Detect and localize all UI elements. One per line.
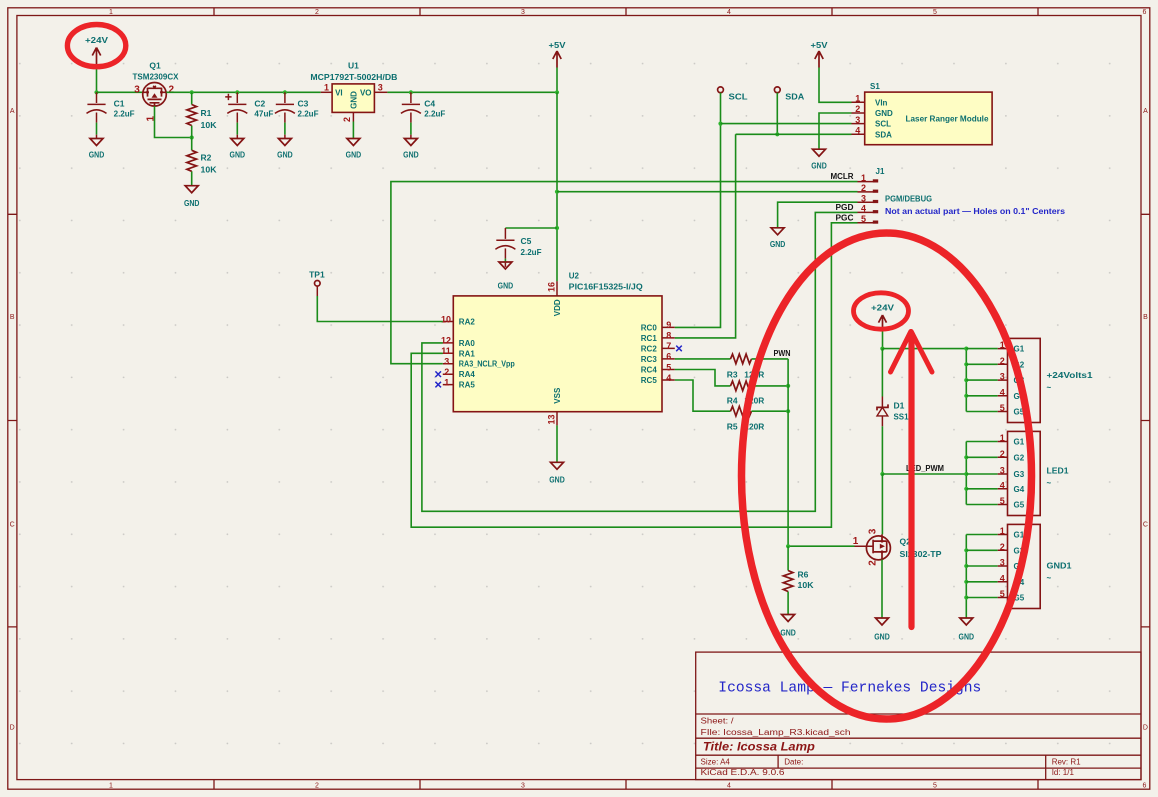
svg-text:U2: U2 — [569, 272, 580, 281]
svg-text:D1: D1 — [894, 401, 905, 411]
node junction rail at R1 — [190, 90, 194, 94]
wire U1 GND pin to ground — [352, 122, 354, 139]
node junction SDA — [775, 132, 779, 136]
svg-text:Date:: Date: — [784, 757, 803, 766]
wire LED_PWM to LED1 bus — [882, 473, 966, 475]
svg-text:2: 2 — [1000, 356, 1005, 366]
connector +24Volts1 — [998, 338, 1093, 422]
node junction rail at C2 — [235, 90, 239, 94]
svg-text:1: 1 — [109, 9, 113, 16]
wire SCL testpoint down — [720, 93, 722, 124]
svg-text:RA2: RA2 — [459, 318, 476, 327]
svg-text:GND: GND — [403, 150, 419, 160]
wire +5V down to rail — [556, 68, 558, 93]
wire Q1 drain to U1 input rail — [166, 91, 320, 93]
ground below R6 — [780, 615, 796, 638]
wire Q2 source to ground — [881, 560, 883, 619]
svg-text:47uF: 47uF — [254, 109, 273, 119]
svg-text:+24Volts1: +24Volts1 — [1047, 371, 1094, 380]
svg-text:6: 6 — [666, 352, 671, 362]
svg-text:GND: GND — [874, 632, 890, 642]
svg-text:R6: R6 — [798, 570, 809, 580]
node junction PWM at Q2 gate — [786, 544, 790, 548]
svg-text:RA5: RA5 — [459, 381, 476, 390]
wire +24V down to D1 — [881, 349, 883, 397]
svg-text:5: 5 — [933, 9, 937, 16]
svg-text:PGC: PGC — [836, 213, 854, 222]
svg-text:2: 2 — [444, 367, 449, 377]
svg-text:5: 5 — [666, 362, 671, 372]
svg-text:3: 3 — [1000, 466, 1005, 476]
svg-text:C4: C4 — [424, 99, 435, 109]
wire +5V to S1 VIn — [819, 68, 852, 103]
svg-text:+5V: +5V — [549, 40, 566, 50]
wire +24V to connector bus — [882, 348, 966, 350]
svg-text:11: 11 — [441, 346, 451, 356]
svg-text:GND: GND — [346, 150, 362, 160]
svg-text:LED1: LED1 — [1047, 467, 1070, 476]
node junction GND1 pin5 — [964, 595, 968, 599]
svg-text:SDA: SDA — [875, 130, 892, 139]
svg-text:3: 3 — [1000, 558, 1005, 568]
node junction GND1 pin3 — [964, 564, 968, 568]
module S1 Laser Ranger Module — [852, 82, 993, 145]
wire SCL to S1 — [721, 123, 852, 125]
svg-text:5: 5 — [861, 214, 866, 224]
svg-text:D: D — [1143, 725, 1148, 732]
border zone numbers top — [109, 9, 1147, 16]
svg-text:Id: 1/1: Id: 1/1 — [1052, 768, 1075, 777]
svg-text:2: 2 — [315, 9, 319, 16]
svg-text:SCL: SCL — [729, 92, 748, 102]
svg-text:G3: G3 — [1014, 470, 1025, 479]
svg-text:9: 9 — [666, 320, 671, 330]
wire U2 VSS to ground — [556, 425, 558, 462]
ground below GND1 bus — [959, 618, 975, 642]
svg-text:GND: GND — [230, 150, 246, 160]
ground below C3 — [277, 139, 293, 160]
svg-text:VI: VI — [335, 88, 343, 97]
capacitor C4 2.2uF — [401, 92, 445, 138]
svg-text:A: A — [10, 108, 15, 115]
svg-text:2.2uF: 2.2uF — [298, 109, 319, 119]
svg-text:3: 3 — [861, 193, 866, 203]
svg-text:5: 5 — [1000, 496, 1005, 506]
svg-text:G2: G2 — [1014, 453, 1025, 462]
svg-text:10K: 10K — [201, 165, 218, 175]
node junction bus pin4 — [964, 394, 968, 398]
svg-text:2: 2 — [169, 85, 175, 96]
svg-text:B: B — [10, 314, 15, 321]
svg-text:Size: A4: Size: A4 — [701, 757, 731, 766]
node junction bus pin2 — [964, 362, 968, 366]
svg-text:GND: GND — [277, 150, 293, 160]
node junction rail at C3 — [283, 90, 287, 94]
svg-text:3: 3 — [1000, 372, 1005, 382]
svg-text:13: 13 — [546, 414, 556, 424]
svg-text:Sheet: /: Sheet: / — [701, 716, 735, 725]
capacitor C5 2.2uF — [495, 228, 541, 267]
ground below U1 — [346, 139, 362, 160]
node junction PWM at R4 — [786, 384, 790, 388]
svg-text:PWN: PWN — [774, 349, 791, 358]
svg-text:J1: J1 — [876, 167, 885, 176]
svg-text:RC0: RC0 — [641, 323, 658, 332]
node junction SCL — [718, 122, 722, 126]
title block frame — [696, 652, 1141, 780]
svg-text:GND: GND — [875, 109, 893, 118]
test point SDA — [774, 87, 804, 102]
svg-text:2.2uF: 2.2uF — [114, 109, 135, 119]
wire U2 RC4 to R4 — [675, 370, 731, 386]
wire LED_PWM down to Q2 drain — [881, 474, 883, 534]
connector J1 PGM/DEBUG — [858, 167, 933, 224]
svg-text:VDD: VDD — [553, 299, 562, 316]
node junction bus pin1 — [964, 347, 968, 351]
diode D1 SS1 (schottky) — [877, 397, 909, 427]
svg-text:RA3_NCLR_Vpp: RA3_NCLR_Vpp — [459, 360, 515, 369]
svg-text:FIle: Icossa_Lamp_R3.kicad_sch: FIle: Icossa_Lamp_R3.kicad_sch — [701, 728, 851, 737]
svg-text:RC3: RC3 — [641, 355, 658, 364]
svg-text:G4: G4 — [1014, 485, 1025, 494]
border zone numbers bottom — [109, 783, 1147, 790]
svg-text:10: 10 — [441, 314, 451, 324]
red annotation big ellipse — [742, 233, 1032, 719]
svg-text:RA1: RA1 — [459, 349, 476, 358]
power symbol +24V (right) — [871, 303, 894, 332]
node junction PWM at R5 — [786, 409, 790, 413]
ground below Q2 — [874, 618, 890, 642]
svg-text:B: B — [1143, 314, 1148, 321]
wire net MCLR: U2 RA3 to J1 pin1 — [391, 182, 858, 364]
svg-text:3: 3 — [444, 357, 449, 367]
connector LED1 — [998, 431, 1069, 515]
svg-text:Title: Icossa Lamp: Title: Icossa Lamp — [703, 742, 815, 754]
wire +24V down to junction — [882, 332, 884, 349]
ground below C4 — [403, 139, 419, 160]
svg-text:4: 4 — [1000, 573, 1005, 583]
svg-text:A: A — [1143, 108, 1148, 115]
svg-text:MCLR: MCLR — [831, 172, 854, 181]
svg-text:R2: R2 — [201, 153, 212, 163]
svg-text:R3: R3 — [727, 369, 738, 379]
svg-text:1: 1 — [444, 377, 449, 387]
svg-text:3: 3 — [521, 9, 525, 16]
wire Q1 gate down and right to R1/R2 node — [155, 106, 192, 138]
power symbol +24V (top-left) — [85, 35, 108, 68]
svg-text:R1: R1 — [201, 108, 212, 118]
wire LED1 bus vertical — [965, 442, 967, 505]
svg-text:GND: GND — [498, 281, 514, 291]
ground below C2 — [230, 139, 246, 160]
node junction GND1 pin4 — [964, 580, 968, 584]
svg-text:2: 2 — [1000, 449, 1005, 459]
no-connect X at U2 RA4 — [435, 371, 441, 377]
svg-text:GND: GND — [184, 198, 200, 208]
wire C5 to +5V vertical — [505, 227, 557, 229]
svg-text:8: 8 — [666, 331, 671, 341]
svg-text:4: 4 — [666, 373, 671, 383]
capacitor C1 — [87, 92, 135, 138]
wire net SCL: U2 RC0 up to SCL node — [675, 124, 721, 328]
ground below C1 — [89, 139, 105, 160]
svg-text:3: 3 — [855, 115, 860, 125]
node junction +5V rail — [555, 90, 559, 94]
svg-text:3: 3 — [868, 528, 879, 534]
svg-text:SI2302-TP: SI2302-TP — [900, 549, 942, 559]
svg-text:6: 6 — [1143, 9, 1147, 16]
svg-text:R5: R5 — [727, 422, 738, 432]
svg-text:RC4: RC4 — [641, 366, 658, 375]
svg-text:Rev: R1: Rev: R1 — [1052, 757, 1081, 766]
svg-text:GND: GND — [549, 475, 565, 485]
svg-text:PGM/DEBUG: PGM/DEBUG — [885, 195, 932, 204]
svg-text:1: 1 — [324, 83, 329, 93]
svg-text:RA4: RA4 — [459, 370, 476, 379]
red annotation small ellipse around +24V right — [854, 293, 909, 329]
capacitor C2 47uF (polarized) — [225, 92, 273, 138]
svg-text:1: 1 — [1000, 433, 1005, 443]
svg-text:3: 3 — [378, 83, 383, 93]
svg-text:+24V: +24V — [85, 35, 108, 45]
red annotation circle around +24V top-left — [67, 24, 125, 66]
ground below U2 VSS — [549, 462, 565, 484]
svg-text:KiCad E.D.A. 9.0.6: KiCad E.D.A. 9.0.6 — [701, 768, 786, 777]
node junction +5V at C5 — [555, 226, 559, 230]
svg-text:+24V: +24V — [871, 303, 894, 313]
capacitor C3 2.2uF — [275, 92, 319, 138]
svg-text:R4: R4 — [727, 395, 738, 405]
wire U2 RC5 to R5 — [675, 380, 731, 411]
svg-text:GND1: GND1 — [1047, 562, 1073, 571]
svg-text:U1: U1 — [348, 61, 359, 71]
wire R5 to PWM node — [752, 410, 789, 412]
svg-text:3: 3 — [521, 783, 525, 790]
node junction +5V at J1 pin2 wire — [555, 190, 559, 194]
wire SDA testpoint down — [776, 93, 778, 135]
regulator U1 MCP1792T-5002H/DB — [310, 61, 397, 123]
test point TP1 — [309, 270, 325, 287]
resistor R3 120R — [727, 354, 765, 379]
svg-text:4: 4 — [1000, 480, 1005, 490]
wire +5V vertical feed to U2 VDD — [556, 92, 558, 281]
node junction bus pin3 — [964, 378, 968, 382]
wire SDA to S1 — [736, 133, 852, 135]
svg-text:C: C — [1143, 522, 1148, 529]
svg-text:2: 2 — [1000, 542, 1005, 552]
svg-text:6: 6 — [1143, 783, 1147, 790]
svg-text:MCP1792T-5002H/DB: MCP1792T-5002H/DB — [310, 72, 397, 82]
svg-text:Q1: Q1 — [149, 61, 161, 71]
svg-text:10K: 10K — [201, 120, 218, 130]
svg-text:2: 2 — [342, 117, 352, 122]
svg-text:16: 16 — [546, 282, 556, 292]
svg-text:GND: GND — [770, 239, 786, 249]
svg-text:10K: 10K — [798, 580, 815, 590]
svg-text:SS1: SS1 — [894, 412, 909, 422]
resistor R2 10K — [187, 138, 217, 186]
svg-text:GND: GND — [350, 91, 359, 109]
svg-text:GND: GND — [89, 150, 105, 160]
svg-text:SDA: SDA — [785, 92, 804, 102]
node junction LED1 pin2 — [964, 455, 968, 459]
svg-text:PGD: PGD — [836, 203, 854, 212]
svg-text:5: 5 — [933, 783, 937, 790]
svg-text:3: 3 — [134, 85, 140, 96]
svg-text:2: 2 — [855, 104, 860, 114]
node junction +24V feed — [880, 347, 884, 351]
svg-text:4: 4 — [727, 9, 731, 16]
svg-text:RC2: RC2 — [641, 344, 658, 353]
transistor Q2 SI2302-TP — [853, 528, 942, 566]
svg-text:C2: C2 — [254, 99, 265, 109]
wire J1 pin3 to ground — [778, 202, 858, 228]
wire +5V to J1 pin 2 — [557, 191, 858, 193]
wire branches to connector +24Volts1 — [966, 349, 997, 412]
svg-text:TP1: TP1 — [309, 270, 325, 280]
node junction LED_PWM — [880, 472, 884, 476]
svg-text:1: 1 — [861, 173, 866, 183]
svg-text:S1: S1 — [870, 82, 880, 91]
node junction rail at C4 — [409, 90, 413, 94]
svg-text:RC1: RC1 — [641, 334, 658, 343]
resistor R1 10K — [187, 92, 217, 137]
wire R3 to PWM node — [752, 358, 789, 360]
wire PWM vertical bus — [787, 359, 789, 546]
wire TP1 to U2 RA2 — [316, 286, 318, 296]
svg-text:5: 5 — [1000, 403, 1005, 413]
wire S1 GND pin to ground — [819, 113, 852, 149]
wire D1 to LED_PWM junction — [881, 426, 883, 474]
svg-text:G5: G5 — [1014, 501, 1025, 510]
svg-text:GND: GND — [780, 628, 796, 638]
resistor R6 10K — [783, 546, 814, 614]
node junction LED1 pin3 — [964, 472, 968, 476]
svg-text:~: ~ — [1047, 574, 1052, 583]
svg-text:2.2uF: 2.2uF — [521, 247, 542, 257]
border zone letters right — [1143, 108, 1148, 732]
wire branches to connector GND1 — [966, 535, 997, 598]
svg-text:~: ~ — [1047, 383, 1052, 392]
svg-text:PIC16F15325-I/JQ: PIC16F15325-I/JQ — [569, 283, 643, 292]
wire R4 to PWM node — [752, 385, 789, 387]
svg-text:+5V: +5V — [811, 40, 828, 50]
svg-text:RC5: RC5 — [641, 376, 658, 385]
border zone letters left — [10, 108, 15, 732]
wire branches to connector LED1 — [966, 442, 997, 505]
wire Q2 gate to PWM bus — [788, 545, 854, 547]
transistor Q1 TSM2309CX — [133, 61, 179, 122]
svg-text:D: D — [10, 725, 15, 732]
svg-text:Not an actual part — Holes on: Not an actual part — Holes on 0.1" Cente… — [885, 207, 1066, 216]
node junction at C1/+24V rail — [94, 90, 98, 94]
connector GND1 — [998, 524, 1072, 608]
test point SCL — [718, 87, 748, 102]
svg-text:VO: VO — [360, 88, 372, 97]
svg-text:1: 1 — [1000, 526, 1005, 536]
wire +24V vertical into rail — [96, 68, 98, 93]
svg-text:1: 1 — [109, 783, 113, 790]
svg-text:C3: C3 — [298, 99, 309, 109]
svg-text:4: 4 — [861, 204, 866, 214]
svg-text:C5: C5 — [521, 236, 532, 246]
svg-text:C: C — [10, 522, 15, 529]
svg-text:4: 4 — [855, 126, 860, 136]
MCU U2 PIC16F15325-I/JQ — [441, 272, 675, 426]
wire +24V rail to Q1 source — [97, 91, 143, 93]
wire +24V connector bus vertical — [965, 349, 967, 412]
node junction R1/R2/Q1 gate — [190, 135, 194, 139]
power symbol +5V (S1) — [811, 40, 828, 68]
svg-text:7: 7 — [666, 341, 671, 351]
svg-text:Laser Ranger Module: Laser Ranger Module — [906, 114, 990, 123]
svg-text:Icossa Lamp — Fernekes Designs: Icossa Lamp — Fernekes Designs — [718, 681, 981, 697]
ground below C5 — [498, 262, 514, 291]
svg-text:G1: G1 — [1014, 438, 1025, 447]
svg-text:GND: GND — [811, 161, 827, 171]
wire U2 RC3 to R3 — [675, 358, 731, 360]
resistor R4 120R — [727, 381, 765, 405]
svg-text:VIn: VIn — [875, 98, 888, 107]
wire net PGC: U2 RA1 loop to J1 pin5 — [411, 223, 857, 527]
ground below S1 — [811, 149, 827, 171]
svg-text:2: 2 — [868, 560, 879, 566]
svg-text:TSM2309CX: TSM2309CX — [133, 72, 179, 82]
ground below J1 pin3 — [770, 228, 786, 249]
svg-text:4: 4 — [727, 783, 731, 790]
svg-text:RA0: RA0 — [459, 339, 476, 348]
svg-text:GND: GND — [959, 632, 975, 642]
svg-text:SCL: SCL — [875, 120, 891, 129]
red annotation arrow pointing up at +24V — [891, 332, 933, 628]
node junction LED1 pin4 — [964, 487, 968, 491]
svg-text:4: 4 — [1000, 387, 1005, 397]
wire net PGD: U2 RA0 loop to J1 pin4 — [422, 212, 858, 511]
wire net SDA: U2 RC1 up to SDA wire — [675, 134, 736, 338]
svg-text:2.2uF: 2.2uF — [424, 109, 445, 119]
power symbol +5V (center) — [549, 40, 566, 68]
svg-text:2: 2 — [861, 183, 866, 193]
wire U1 output to +5V rail — [387, 91, 557, 93]
wire GND1 bus vertical to ground — [965, 535, 967, 619]
svg-text:1: 1 — [855, 94, 860, 104]
svg-text:12: 12 — [441, 336, 451, 346]
no-connect X at U2 RA5 — [435, 382, 441, 388]
svg-text:2: 2 — [315, 783, 319, 790]
svg-text:~: ~ — [1047, 479, 1052, 488]
ground below R2 — [184, 186, 200, 208]
node junction GND1 pin2 — [964, 548, 968, 552]
svg-text:C1: C1 — [114, 99, 125, 109]
resistor R5 120R — [727, 406, 765, 431]
no-connect X at U2 RC2 — [676, 346, 682, 352]
svg-text:VSS: VSS — [553, 387, 562, 404]
svg-text:5: 5 — [1000, 589, 1005, 599]
